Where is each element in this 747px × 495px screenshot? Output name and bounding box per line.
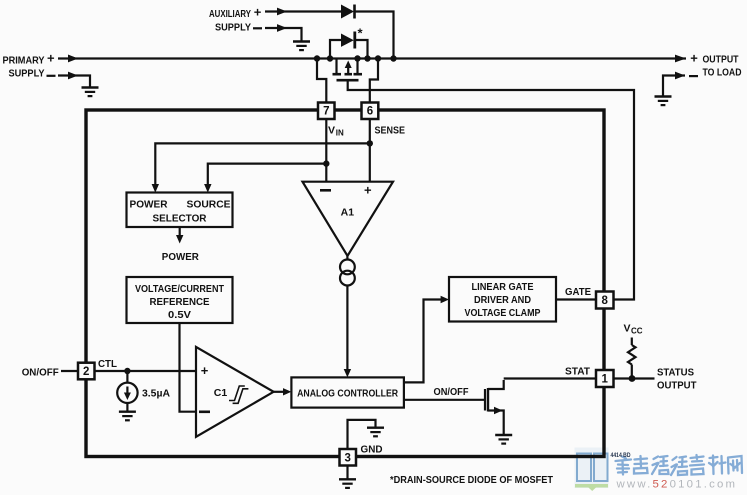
svg-text:CC: CC xyxy=(631,327,643,336)
wire Q1 gate to pin 8 xyxy=(348,81,634,300)
svg-text:OUTPUT: OUTPUT xyxy=(703,54,739,66)
resistor R1 VCC pull-up xyxy=(631,338,633,346)
svg-text:GATE: GATE xyxy=(565,286,591,298)
svg-text:V: V xyxy=(328,124,335,136)
linear gate driver and voltage clamp box xyxy=(449,277,556,322)
node dot STATUS output xyxy=(629,375,636,382)
svg-text:3.5µA: 3.5µA xyxy=(142,388,170,400)
current source I2 below A1 xyxy=(346,256,348,260)
ground internal GND xyxy=(367,428,384,437)
arrow on auxiliary + wire xyxy=(277,8,287,16)
pin 2 box xyxy=(78,363,95,380)
svg-text:GND: GND xyxy=(361,443,383,455)
arrow to + output xyxy=(675,55,686,63)
svg-text:7: 7 xyxy=(323,106,329,118)
wire auxiliary + to diode xyxy=(265,10,341,12)
svg-text:www.520101.com: www.520101.com xyxy=(616,479,738,491)
svg-text:+: + xyxy=(201,363,209,378)
svg-text:REFERENCE: REFERENCE xyxy=(150,296,210,308)
svg-text:SENSE: SENSE xyxy=(375,124,406,136)
svg-text:3: 3 xyxy=(344,452,350,464)
watermark url www.520101.com xyxy=(616,479,738,491)
arrow on output - wire xyxy=(675,72,685,80)
svg-text:SUPPLY: SUPPLY xyxy=(9,68,45,80)
body diode of MOSFET (starred) xyxy=(330,40,342,59)
svg-text:4414 BD: 4414 BD xyxy=(611,453,632,459)
arrow on auxiliary - wire xyxy=(277,24,287,32)
node dot VIN branch xyxy=(323,160,329,166)
wire SENSE branch to power source selector xyxy=(155,143,369,189)
wire SENSE pin 6 to A1 non-inverting input xyxy=(369,119,371,182)
current source I1 3.5uA xyxy=(126,371,128,383)
svg-text:1: 1 xyxy=(601,374,608,386)
IC boundary box U1 xyxy=(86,110,604,457)
svg-text:*: * xyxy=(358,26,364,41)
svg-text:+: + xyxy=(364,183,372,198)
svg-text:PRIMARY: PRIMARY xyxy=(3,54,45,66)
svg-text:+: + xyxy=(690,51,698,66)
wire output - to ground xyxy=(663,76,685,97)
stub ON/OFF to pin 2 xyxy=(61,370,78,372)
wire rail to pin 6 xyxy=(370,59,378,103)
svg-text:8: 8 xyxy=(601,295,608,307)
svg-text:V: V xyxy=(624,322,631,334)
wire analog controller to linear gate driver xyxy=(404,300,445,383)
ground output load xyxy=(655,97,672,106)
analog controller box xyxy=(291,377,404,407)
wire VIN branch to power source selector xyxy=(208,164,326,189)
watermark logo book icon xyxy=(575,448,609,489)
svg-text:0.5V: 0.5V xyxy=(168,309,191,321)
svg-text:STAT: STAT xyxy=(565,365,591,377)
arrow on primary + rail xyxy=(68,55,78,63)
svg-text:ON/OFF: ON/OFF xyxy=(434,386,470,398)
svg-text:OUTPUT: OUTPUT xyxy=(657,380,697,392)
pin 6 box xyxy=(362,103,379,120)
svg-text:SOURCE: SOURCE xyxy=(187,198,231,210)
wire current source to analog controller xyxy=(346,286,348,375)
ground Q2 source xyxy=(495,435,512,444)
wire rail to pin 7 xyxy=(317,59,326,103)
ground current source I1 xyxy=(119,412,136,421)
svg-text:POWER: POWER xyxy=(130,198,168,210)
wire CTL pin 2 to C1 xyxy=(95,370,197,372)
arrow POWER output of selector xyxy=(179,227,181,240)
svg-text:CTL: CTL xyxy=(98,358,118,370)
wire primary + rail xyxy=(58,57,686,59)
wire ON/OFF analog controller to Q2 gate xyxy=(404,399,485,401)
diode D1 auxiliary xyxy=(341,5,354,19)
svg-text:+: + xyxy=(254,5,262,20)
svg-text:6: 6 xyxy=(367,106,373,118)
ground external pin 3 xyxy=(339,479,356,488)
pin 8 box xyxy=(596,292,614,309)
svg-text:ANALOG CONTROLLER: ANALOG CONTROLLER xyxy=(297,387,398,399)
svg-text:VOLTAGE/CURRENT: VOLTAGE/CURRENT xyxy=(135,283,224,295)
svg-text:A1: A1 xyxy=(341,206,355,218)
wire pin 1 to STATUS OUTPUT xyxy=(614,377,655,379)
wire auxiliary - to ground xyxy=(265,28,302,41)
svg-text:SELECTOR: SELECTOR xyxy=(153,212,207,224)
transistor Q2 status NMOS xyxy=(484,389,486,411)
transistor Q1 external P-MOSFET xyxy=(335,59,337,74)
wire GND pin 3 to internal ground xyxy=(348,420,376,450)
svg-text:AUXILIARY: AUXILIARY xyxy=(209,8,251,20)
voltage/current reference box xyxy=(127,277,233,323)
wire primary - to ground xyxy=(58,76,90,88)
svg-text:POWER: POWER xyxy=(162,251,199,263)
svg-text:STATUS: STATUS xyxy=(657,367,694,379)
wire pin 3 to external ground xyxy=(346,465,348,479)
svg-text:VOLTAGE CLAMP: VOLTAGE CLAMP xyxy=(465,307,541,319)
junction dots on rail xyxy=(314,55,320,61)
node dot CTL xyxy=(124,368,130,374)
svg-text:IN: IN xyxy=(336,129,344,138)
svg-text:ON/OFF: ON/OFF xyxy=(22,366,60,378)
ground primary supply xyxy=(82,88,99,97)
ground auxiliary supply xyxy=(293,42,310,51)
arrow on primary - wire xyxy=(68,72,78,80)
power source selector box xyxy=(127,193,233,228)
wire VIN pin 7 to A1 inverting input xyxy=(325,119,327,182)
wire reference to C1 inverting input xyxy=(180,323,197,412)
svg-text:LINEAR GATE: LINEAR GATE xyxy=(472,281,534,293)
pin 3 box xyxy=(340,449,357,466)
pin 1 box xyxy=(596,370,614,387)
wire diode D1 cathode to rail xyxy=(356,12,394,59)
svg-text:SUPPLY: SUPPLY xyxy=(215,22,251,34)
wire gate driver to pin 8 xyxy=(556,298,596,300)
pin 7 box xyxy=(318,103,335,120)
svg-text:+: + xyxy=(47,51,55,66)
op-amp A1 xyxy=(303,182,394,256)
wire C1 output to analog controller xyxy=(274,391,288,393)
svg-text:*DRAIN-SOURCE DIODE OF MOSFET: *DRAIN-SOURCE DIODE OF MOSFET xyxy=(390,474,554,486)
watermark chinese text xyxy=(616,455,743,475)
svg-text:C1: C1 xyxy=(214,387,228,399)
svg-text:TO LOAD: TO LOAD xyxy=(703,67,742,79)
comparator C1 xyxy=(196,347,274,437)
node dot SENSE branch xyxy=(367,140,373,146)
svg-text:2: 2 xyxy=(83,366,89,378)
svg-text:DRIVER AND: DRIVER AND xyxy=(474,294,531,306)
wire STAT pin 1 to Q2 drain xyxy=(504,377,596,379)
hysteresis symbol in C1 xyxy=(229,386,245,401)
